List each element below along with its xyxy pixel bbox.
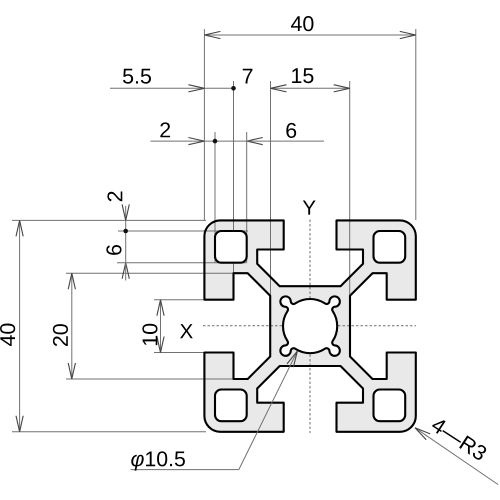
dimension 6 left: label xyxy=(106,245,121,255)
dimension 40 left: line xyxy=(19,220,21,431)
extension line: slot cavity top 10mm xyxy=(66,272,234,274)
dimension 20: label xyxy=(53,324,68,346)
dimension 5.5: label xyxy=(123,69,151,84)
extension line: 8mm from left edge xyxy=(246,132,248,263)
corner square hole bottom-right xyxy=(374,390,406,422)
dimension 40 top: label xyxy=(291,16,313,31)
dimension 2 left: label xyxy=(107,192,122,202)
corner square hole bottom-left xyxy=(215,390,247,422)
dimension 2 top: label xyxy=(160,122,170,137)
corner square hole top-right xyxy=(374,231,406,263)
dot at 5.5/7 boundary xyxy=(231,86,236,91)
extension line: slot opening top 15mm xyxy=(154,299,205,301)
extension line: 2mm below top edge xyxy=(118,230,248,232)
corner square hole top-left xyxy=(215,231,247,263)
extension line: 8mm below top edge xyxy=(117,262,247,264)
dimension 10: label xyxy=(142,324,157,345)
dimension 6 top: label xyxy=(286,123,296,138)
extension line: slot opening bottom 25mm xyxy=(154,352,205,354)
label 4-R3 xyxy=(430,416,488,461)
leader 4-R3 xyxy=(415,428,498,485)
extension line: left edge vertical xyxy=(203,29,205,220)
dimension 7: label xyxy=(243,69,253,84)
extension line: 5.5mm from left edge xyxy=(233,81,235,273)
extension line: 2mm from left edge xyxy=(214,132,216,263)
profile outer outline xyxy=(204,220,415,431)
dimension 10: line xyxy=(160,300,162,353)
leader phi10.5 xyxy=(131,351,298,469)
dot at 2/6 boundary xyxy=(213,139,218,144)
extension line: core left face 12.5mm xyxy=(270,81,272,296)
X axis center line xyxy=(203,325,416,327)
dimension 15: label xyxy=(292,68,313,83)
extension line: right edge vertical xyxy=(415,29,417,220)
profile body fill xyxy=(204,220,415,431)
extension line: core right face 27.5mm xyxy=(349,81,351,296)
label X xyxy=(180,324,193,338)
dimension 2 top: line with outside arrow xyxy=(151,140,247,142)
dimension 2 left: line with outside arrow xyxy=(125,206,127,263)
dimension 40 top: line xyxy=(204,34,415,36)
Y axis center line xyxy=(309,220,311,434)
dimension 40 top: arrows xyxy=(204,31,220,38)
dimension 20: line xyxy=(71,273,73,379)
dimension 6 left: outside arrow xyxy=(122,263,129,279)
dimension 6 top: outside arrow xyxy=(247,138,263,145)
extension line: slot cavity bottom 30mm xyxy=(66,378,234,380)
label phi10.5 xyxy=(131,451,185,470)
dimension 15: line xyxy=(271,87,350,89)
label Y xyxy=(303,200,316,214)
dimension 40 left: label xyxy=(0,324,15,346)
center bore phi10.5 with four corner reliefs xyxy=(280,296,339,355)
dimension 6 top: tail line xyxy=(247,140,324,142)
dimension 5.5: line with outside arrow xyxy=(110,87,234,89)
dot at 2/6 left boundary xyxy=(123,229,128,234)
extension line: top edge horizontal xyxy=(12,219,206,221)
dimension 15: arrows xyxy=(271,85,287,92)
extension line: bottom edge horizontal xyxy=(12,431,206,433)
